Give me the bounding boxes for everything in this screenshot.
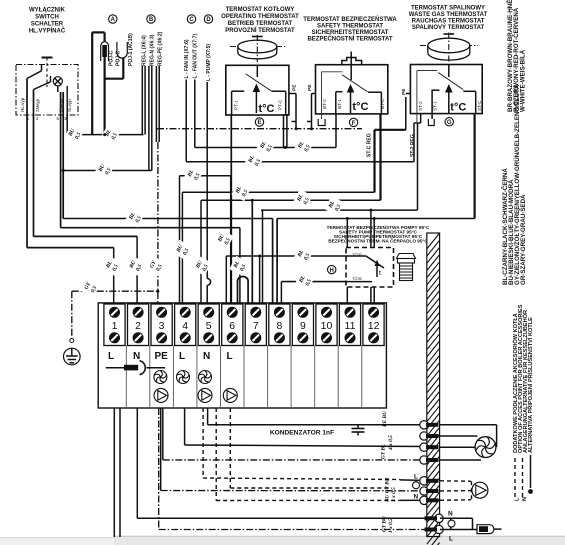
svg-text:WYŁĄCZNIK: WYŁĄCZNIK (29, 8, 66, 14)
svg-text:WASTE GAS THERMOSTAT: WASTE GAS THERMOSTAT (409, 12, 488, 18)
svg-text:D: D (206, 17, 211, 23)
svg-text:ST-1: ST-1 (432, 101, 437, 111)
svg-text:G: G (447, 120, 452, 126)
svg-text:N: N (133, 351, 140, 362)
svg-text:7: 7 (253, 320, 259, 332)
svg-text:BT-C: BT-C (380, 98, 385, 109)
svg-text:SAFETY THERMOSTAT: SAFETY THERMOSTAT (317, 24, 383, 30)
svg-text:SWITCH: SWITCH (35, 15, 59, 21)
svg-text:ST-C REG: ST-C REG (367, 133, 373, 157)
svg-text:1: 1 (112, 320, 118, 332)
svg-text:6: 6 (229, 320, 235, 332)
svg-text:PE: PE (155, 351, 169, 362)
svg-text:ST-C: ST-C (477, 100, 482, 111)
svg-text:ST-2: ST-2 (418, 101, 423, 111)
svg-text:TERMOSTAT KOTŁOWY: TERMOSTAT KOTŁOWY (226, 7, 295, 13)
svg-text:L: L (227, 351, 233, 362)
svg-text:BETRIEB TERMOSTAT: BETRIEB TERMOSTAT (228, 21, 293, 27)
svg-text:TERMOSTAT SPALINOWY: TERMOSTAT SPALINOWY (411, 6, 485, 12)
svg-text:3: 3 (159, 320, 165, 332)
svg-text:PT-1: PT-1 (234, 100, 239, 110)
svg-text:L - PUMP (X7:5): L - PUMP (X7:5) (206, 44, 212, 81)
svg-text:PROVOZNÍ TERMOSTAT: PROVOZNÍ TERMOSTAT (225, 26, 295, 34)
svg-text:2: 2 (135, 320, 141, 332)
svg-text:HL.vyp: HL.vyp (20, 97, 25, 112)
svg-text:2Nvyp: 2Nvyp (59, 99, 64, 112)
svg-text:L - FAN IN (X7:6): L - FAN IN (X7:6) (184, 39, 190, 78)
svg-text:POJ-C: POJ-C (109, 50, 115, 66)
svg-text:N: N (414, 494, 419, 501)
svg-text:KONDENZATOR 1nF: KONDENZATOR 1nF (270, 430, 334, 437)
svg-text:BEZPEČNOSTNÍ TERMOSTAT: BEZPEČNOSTNÍ TERMOSTAT (307, 35, 392, 43)
svg-text:L: L (449, 536, 453, 543)
svg-text:t: t (379, 270, 381, 277)
svg-text:BT-1: BT-1 (337, 99, 342, 109)
svg-text:10: 10 (321, 320, 333, 332)
svg-text:11: 11 (345, 320, 356, 332)
svg-text:C: C (189, 17, 194, 23)
svg-text:N: N (448, 511, 453, 518)
svg-text:HL.VYPÍNAČ: HL.VYPÍNAČ (29, 27, 66, 35)
svg-text:RE BU: RE BU (382, 410, 388, 428)
svg-text:SLvyp: SLvyp (67, 99, 72, 112)
svg-text:N: N (203, 351, 210, 362)
svg-text:L: L (108, 351, 114, 362)
svg-text:SPALINOVÝ TERMOSTAT: SPALINOVÝ TERMOSTAT (412, 24, 485, 31)
svg-text:SICHERHEITSTERMOSTAT: SICHERHEITSTERMOSTAT (312, 30, 389, 36)
svg-text:BT-2: BT-2 (322, 99, 327, 109)
svg-text:BU GY BR: BU GY BR (385, 477, 391, 503)
svg-text:t°C: t°C (352, 101, 368, 113)
svg-text:A: A (111, 17, 116, 23)
svg-text:8: 8 (276, 320, 282, 332)
svg-text:F: F (352, 121, 356, 127)
svg-text:H: H (330, 268, 334, 274)
svg-text:L - FAN OUT (X7:7): L - FAN OUT (X7:7) (193, 34, 199, 79)
svg-text:N: N (522, 497, 528, 501)
svg-text:REG-PE (X6:2): REG-PE (X6:2) (157, 31, 163, 66)
svg-text:TERMOSTAT BEZPIECZEŃSTWA: TERMOSTAT BEZPIECZEŃSTWA (303, 15, 397, 23)
svg-text:L: L (179, 351, 185, 362)
svg-text:OPERATING THERMOSTAT: OPERATING THERMOSTAT (221, 14, 299, 20)
svg-text:4: 4 (182, 320, 188, 332)
svg-text:GY BL: GY BL (381, 443, 387, 459)
svg-text:E: E (257, 120, 261, 126)
svg-text:PT-C: PT-C (278, 99, 283, 110)
svg-text:REG-N (X6:3): REG-N (X6:3) (149, 34, 155, 66)
svg-text:L: L (414, 474, 418, 481)
svg-text:ST-2 REG: ST-2 REG (410, 134, 416, 157)
svg-text:GY BU: GY BU (382, 515, 388, 532)
svg-text:9: 9 (300, 320, 306, 332)
svg-text:4 x 0,5: 4 x 0,5 (388, 435, 394, 451)
svg-text:2Nvyp: 2Nvyp (35, 99, 40, 112)
svg-text:ALTERNATIVA PŘIPOJENÍ PŘÍSLUŠE: ALTERNATIVA PŘIPOJENÍ PŘÍSLUŠENSTVÍ KOTL… (526, 317, 534, 453)
svg-text:PE: PE (307, 84, 313, 91)
svg-text:B: B (149, 17, 154, 23)
svg-text:5: 5 (206, 320, 212, 332)
svg-text:t°C: t°C (450, 102, 466, 114)
svg-text:RAUCHGAS TERMOSTAT: RAUCHGAS TERMOSTAT (412, 19, 485, 25)
svg-text:12: 12 (368, 320, 380, 332)
svg-text:PE: PE (291, 84, 297, 91)
svg-text:BEZPEČNOSTNÍ TERM. NA ČERPADLO: BEZPEČNOSTNÍ TERM. NA ČERPADLO 95°C (328, 237, 428, 244)
svg-text:t°C: t°C (259, 103, 275, 115)
svg-text:SCHALTER: SCHALTER (31, 22, 64, 28)
svg-text:TČ95: TČ95 (352, 276, 363, 281)
svg-text:1 x 0,5: 1 x 0,5 (388, 518, 394, 533)
svg-text:3 x 0,5: 3 x 0,5 (391, 487, 397, 503)
svg-text:GR-SZARY-GREY-GRAU-ŠEDÁ: GR-SZARY-GREY-GRAU-ŠEDÁ (519, 194, 527, 285)
svg-text:POJ-1 (AC1B): POJ-1 (AC1B) (128, 33, 134, 66)
svg-text:REG-L (X6:4): REG-L (X6:4) (142, 35, 148, 66)
